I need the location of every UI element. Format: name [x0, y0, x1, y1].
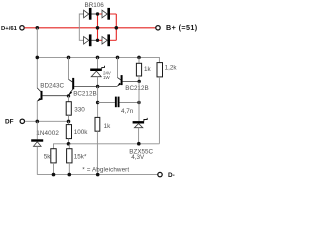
- svg-text:100k: 100k: [74, 129, 89, 136]
- wire D2 cathode red to right vertical: [110, 13, 116, 15]
- wire emitter line to Q3: [98, 86, 118, 88]
- wire bridge left vertical: [79, 14, 83, 40]
- diode D2 top-right of BR106: [102, 10, 107, 18]
- junction dot bridge mid top: [96, 12, 99, 15]
- junction dot zener bottom / bases node: [96, 85, 99, 88]
- terminal B+: [156, 26, 160, 30]
- wire bridge middle vertical red: [97, 14, 99, 40]
- svg-text:330: 330: [74, 106, 85, 113]
- svg-text:BD243C: BD243C: [40, 83, 64, 90]
- wire Q1 emitter down to DF node: [36, 101, 38, 122]
- terminal D-: [158, 172, 162, 176]
- wire 1k down to ground rail: [96, 131, 98, 174]
- junction dot DF at left column: [36, 120, 40, 124]
- wire collector drop from D+ bus: [36, 28, 38, 88]
- transistor Q1 BD243C: [37, 88, 68, 101]
- junction dot node at zener: [137, 142, 141, 146]
- resistor 330: [68, 96, 70, 102]
- svg-text:15k*: 15k*: [74, 154, 87, 161]
- wire Q3 collector stub: [117, 57, 119, 77]
- svg-text:4,3V: 4,3V: [131, 154, 145, 161]
- svg-text:DF: DF: [5, 119, 14, 126]
- wire red to D2 anode: [98, 13, 103, 15]
- svg-text:B+ (=51): B+ (=51): [166, 23, 198, 32]
- junction dot bridge mid bottom: [96, 39, 99, 42]
- junction dot Q3 base: [138, 80, 141, 83]
- wire zener node down: [97, 87, 99, 118]
- junction dot bridge mid center: [96, 26, 100, 30]
- wire node line (divider node): [54, 144, 160, 149]
- svg-text:5k: 5k: [44, 154, 52, 161]
- diode 1N4002: [31, 139, 43, 141]
- wire middle bus: [37, 57, 159, 62]
- wire red to D4 anode: [98, 39, 103, 41]
- diode D1 top-left of BR106: [84, 10, 89, 18]
- junction dot bus left: [36, 56, 40, 60]
- transistor Q2 BC212B (left): [69, 78, 98, 96]
- junction dot bridge right center: [115, 26, 119, 30]
- junction dot bus at Q3 column: [116, 56, 120, 60]
- resistor 100k: [68, 121, 70, 124]
- junction dot bus at 1k column: [137, 56, 141, 60]
- terminal DF: [20, 119, 24, 123]
- svg-text:BR106: BR106: [85, 2, 105, 9]
- wire DF line: [25, 120, 69, 122]
- diode D3 bottom-left of BR106: [84, 37, 89, 45]
- junction dot rail 1k: [96, 173, 100, 177]
- junction dot bus at 330 column: [67, 56, 71, 60]
- wire Q2 collector stub: [68, 57, 70, 79]
- diode D4 bottom-right of BR106: [102, 37, 107, 45]
- wire D4 cathode red to right vertical: [110, 39, 116, 41]
- svg-text:1,2k: 1,2k: [165, 65, 178, 72]
- wire bridge right vertical red: [115, 14, 117, 40]
- capacitor 4,7n: [98, 102, 115, 104]
- transistor Q3 BC212B (right): [117, 75, 139, 86]
- svg-text:D-: D-: [168, 172, 175, 179]
- junction dot rail 5k: [52, 173, 56, 177]
- svg-text:1k: 1k: [104, 123, 112, 130]
- junction dot DF at 330/100k column: [67, 120, 71, 124]
- wire DF node down to diode: [36, 121, 38, 139]
- resistor 1k (left column): [95, 117, 100, 131]
- svg-text:BC212B: BC212B: [73, 91, 96, 98]
- terminal D+: [20, 26, 24, 30]
- resistor 15k*: [68, 144, 70, 149]
- wire 1,2k down to node line: [158, 77, 160, 144]
- wire D3 cathode to mid node: [92, 39, 98, 41]
- node junction dot at D+ branch: [36, 26, 40, 30]
- junction dot node at 100k/15k: [67, 142, 71, 146]
- zener 24V 1W: [97, 57, 99, 68]
- svg-text:BC212B: BC212B: [125, 85, 148, 92]
- resistor 1,2k: [157, 63, 163, 77]
- zener BZX55C 4,3V: [133, 121, 145, 123]
- wire base column down: [138, 81, 140, 121]
- wire red main bus D+ to B+: [24, 27, 155, 29]
- junction dot cap branch right: [137, 101, 140, 104]
- resistor 1k (right column): [138, 57, 140, 63]
- svg-text:1k: 1k: [144, 66, 152, 73]
- svg-text:D+/61: D+/61: [1, 26, 18, 32]
- svg-text:1W: 1W: [103, 75, 110, 80]
- svg-text:1N4002: 1N4002: [36, 130, 59, 137]
- svg-text:4,7n: 4,7n: [121, 108, 134, 115]
- junction dot cap branch left: [96, 101, 99, 104]
- resistor 5k: [51, 149, 56, 163]
- junction dot rail 15k: [68, 173, 72, 177]
- junction dot bus at zener column: [96, 56, 100, 60]
- wire diode to ground rail: [36, 146, 38, 174]
- junction dot Q1 base / 330 top: [67, 94, 70, 97]
- wire D1 cathode to mid node: [92, 13, 98, 15]
- wire ground rail: [37, 174, 157, 176]
- svg-text:* = Abgleichwert: * = Abgleichwert: [82, 166, 129, 173]
